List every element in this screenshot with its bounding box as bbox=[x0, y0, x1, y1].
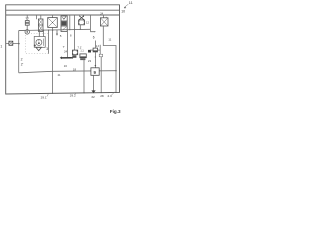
svg-text:1: 1 bbox=[0, 45, 2, 49]
leader 11 bbox=[124, 4, 128, 8]
leader 29.2 bbox=[75, 93, 76, 95]
svg-text:4.3: 4.3 bbox=[107, 94, 112, 98]
svg-text:2.3: 2.3 bbox=[96, 45, 100, 48]
svg-text:10: 10 bbox=[121, 10, 125, 14]
tank triangle bbox=[36, 47, 42, 50]
stub below V5 bbox=[79, 25, 81, 30]
pump drop wires bbox=[38, 30, 40, 36]
svg-text:23: 23 bbox=[88, 59, 92, 63]
inlet line with box B1 bbox=[6, 42, 19, 44]
junction dot V5 stub bbox=[80, 29, 81, 30]
junction dots on line A bbox=[39, 30, 40, 31]
riser mid bbox=[66, 30, 68, 58]
svg-text:Fig.3: Fig.3 bbox=[110, 109, 121, 114]
box C5 bbox=[99, 54, 102, 57]
line A bbox=[19, 29, 90, 30]
svg-text:18: 18 bbox=[73, 68, 77, 72]
svg-text:6: 6 bbox=[93, 35, 95, 39]
wire riser bbox=[69, 15, 71, 30]
gauge circle bbox=[25, 30, 29, 34]
svg-text:3: 3 bbox=[46, 47, 48, 51]
long vertical from V3 to bottom bbox=[51, 27, 53, 93]
drop from box 9 bbox=[92, 75, 94, 90]
svg-text:5: 5 bbox=[60, 34, 62, 38]
svg-text:29.1: 29.1 bbox=[41, 96, 47, 100]
svg-text:8: 8 bbox=[70, 34, 72, 38]
svg-text:21: 21 bbox=[58, 73, 61, 77]
long horizontal low line bbox=[19, 71, 116, 73]
svg-text:32: 32 bbox=[91, 95, 95, 99]
wire to 6 bbox=[91, 15, 95, 32]
valve V1 top-left bbox=[25, 15, 29, 30]
crossed box V3 bbox=[48, 15, 58, 27]
crossed box V6 right bbox=[100, 15, 108, 26]
valve V2 (stacked) bbox=[38, 15, 43, 31]
junction dot above box 9 bbox=[95, 65, 96, 66]
pump dashed enclosure bbox=[26, 33, 49, 53]
thick actuator line bbox=[61, 57, 72, 59]
svg-text:1.1: 1.1 bbox=[80, 49, 84, 52]
junction dot right drop bbox=[115, 70, 116, 71]
junction dot riser 2 bbox=[74, 29, 75, 30]
svg-text:11: 11 bbox=[129, 1, 133, 5]
svg-text:2′: 2′ bbox=[21, 63, 24, 67]
svg-text:12: 12 bbox=[86, 20, 90, 24]
leader 29.1 bbox=[47, 94, 49, 97]
drop left of cluster bbox=[83, 59, 85, 93]
box C2 bbox=[80, 54, 86, 58]
valve V5 pair bbox=[78, 16, 84, 25]
riser to box 9 bbox=[94, 52, 96, 68]
tank arrow 32 bbox=[91, 90, 95, 93]
svg-text:2: 2 bbox=[21, 57, 23, 61]
valve C3 bbox=[90, 49, 93, 51]
bus line top bbox=[6, 9, 120, 11]
check valve bbox=[34, 45, 36, 47]
cluster wires bbox=[94, 41, 96, 49]
bus line lower bbox=[6, 14, 120, 16]
route from V6 to right drop bbox=[103, 26, 116, 92]
accumulator V4 bbox=[61, 15, 67, 32]
arrow 5 bbox=[56, 30, 58, 34]
blob bbox=[88, 50, 91, 53]
box 9 bbox=[91, 68, 99, 76]
wire to left riser bbox=[19, 29, 27, 31]
junction dot riser 1 bbox=[69, 29, 70, 30]
left riser of unit 2 bbox=[18, 31, 20, 73]
svg-text:11: 11 bbox=[108, 37, 111, 41]
svg-text:7′: 7′ bbox=[63, 45, 66, 49]
outer frame bbox=[6, 5, 120, 94]
stub wire left of V2 bbox=[36, 15, 38, 19]
junction dots on bottom edge bbox=[83, 92, 84, 93]
crossed box C1 bbox=[73, 50, 78, 55]
svg-text:16: 16 bbox=[64, 64, 68, 68]
wire riser 2 bbox=[74, 15, 76, 52]
junction dot bbox=[52, 29, 53, 30]
leader 4.3 bbox=[112, 92, 115, 95]
svg-text:28: 28 bbox=[100, 94, 104, 98]
pump block bbox=[34, 37, 45, 48]
